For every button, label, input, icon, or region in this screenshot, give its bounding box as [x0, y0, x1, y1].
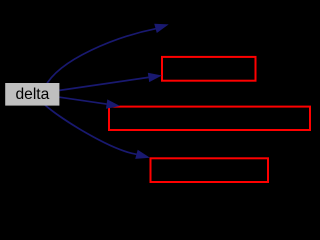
svg-text:delta: delta	[15, 86, 49, 103]
